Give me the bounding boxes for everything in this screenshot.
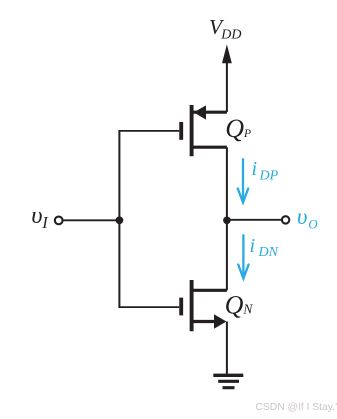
svg-text:DD: DD [220,27,241,42]
wire QP drain to output node [226,147,228,220]
junction dot input node [116,216,124,224]
output terminal circle [282,216,289,223]
current arrow i_DP [238,158,248,202]
current arrow i_DN [238,234,248,278]
wire to Q_P gate [118,130,179,132]
svg-text:CSDN @If I Stay.?: CSDN @If I Stay.? [256,402,337,413]
input wire [64,219,120,221]
Q_N source arrow (points out) [214,314,226,329]
gate bus wire [118,131,120,307]
output wire [227,219,282,221]
wire output node to QN drain [226,220,228,290]
svg-text:DN: DN [258,245,279,260]
svg-text:DP: DP [259,168,279,183]
transistor Q_P [181,105,227,156]
v_I label [31,202,49,232]
input terminal circle [55,217,63,225]
ground [213,375,243,387]
i_DP label [252,158,279,183]
V_DD label [209,15,242,43]
svg-text:υ: υ [31,202,42,229]
Q_N drain terminal [192,289,227,292]
Q_P drain terminal [192,146,227,149]
Q_P source arrow (points into channel) [194,105,206,119]
Q_N label [225,290,254,319]
Q_P label [225,114,251,143]
svg-text:Q: Q [225,114,244,143]
wire to Q_N gate [118,306,179,308]
svg-text:N: N [242,302,253,317]
Q_P gate bar [179,122,183,140]
Q_N gate bar [179,298,183,316]
i_DN label [250,235,279,260]
svg-text:υ: υ [297,204,308,229]
v_O label [297,204,318,232]
svg-text:O: O [308,217,318,232]
junction dot output node [223,217,231,225]
power arrow VDD [222,44,232,112]
svg-text:i: i [252,158,258,180]
transistor Q_N [181,280,227,331]
svg-text:Q: Q [225,290,244,319]
Q_P channel bar [190,105,194,156]
Q_N source terminal [192,320,216,323]
svg-text:P: P [243,128,251,140]
svg-text:i: i [250,235,256,257]
svg-text:I: I [41,213,49,232]
Q_P source terminal [192,111,227,114]
Q_N channel bar [190,280,194,331]
wire QN source to ground [226,322,228,376]
